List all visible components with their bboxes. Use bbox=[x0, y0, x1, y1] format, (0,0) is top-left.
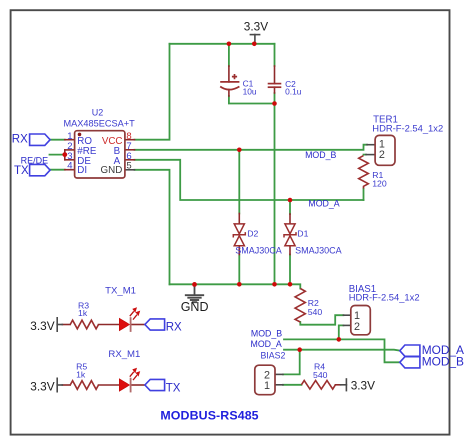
svg-text:TX_M1: TX_M1 bbox=[105, 286, 136, 297]
svg-text:540: 540 bbox=[313, 370, 328, 380]
svg-text:RX: RX bbox=[12, 133, 28, 145]
svg-text:120: 120 bbox=[372, 179, 387, 189]
svg-text:0.1u: 0.1u bbox=[285, 87, 302, 97]
svg-text:D1: D1 bbox=[297, 228, 308, 238]
svg-text:GND: GND bbox=[181, 300, 209, 314]
svg-text:TX: TX bbox=[166, 382, 181, 394]
svg-text:MOD_B: MOD_B bbox=[422, 354, 464, 368]
svg-text:HDR-F-2.54_1x2: HDR-F-2.54_1x2 bbox=[349, 292, 420, 303]
svg-text:SMAJ30CA: SMAJ30CA bbox=[295, 246, 342, 256]
svg-text:MAX485ECSA+T: MAX485ECSA+T bbox=[63, 119, 135, 129]
svg-text:2: 2 bbox=[379, 149, 385, 161]
svg-text:3.3V: 3.3V bbox=[30, 319, 54, 333]
svg-text:4: 4 bbox=[67, 161, 72, 172]
svg-text:1k: 1k bbox=[76, 369, 86, 379]
svg-text:SMAJ30CA: SMAJ30CA bbox=[235, 246, 282, 256]
svg-text:3.3V: 3.3V bbox=[30, 379, 54, 393]
svg-text:RX_M1: RX_M1 bbox=[108, 349, 140, 360]
svg-text:1k: 1k bbox=[78, 308, 88, 318]
svg-text:U2: U2 bbox=[92, 107, 104, 117]
svg-text:2: 2 bbox=[354, 321, 360, 333]
svg-text:3.3V: 3.3V bbox=[244, 19, 268, 33]
svg-text:MOD_B: MOD_B bbox=[305, 150, 336, 160]
svg-text:MODBUS-RS485: MODBUS-RS485 bbox=[160, 409, 258, 423]
svg-text:GND: GND bbox=[101, 165, 123, 176]
svg-text:DI: DI bbox=[77, 165, 87, 176]
svg-text:HDR-F-2.54_1x2: HDR-F-2.54_1x2 bbox=[372, 122, 443, 133]
svg-text:3.3V: 3.3V bbox=[351, 378, 375, 392]
svg-text:MOD_A: MOD_A bbox=[308, 199, 339, 209]
svg-text:BIAS2: BIAS2 bbox=[261, 350, 286, 360]
svg-text:TX: TX bbox=[14, 165, 29, 177]
svg-text:MOD_B: MOD_B bbox=[251, 328, 282, 338]
svg-text:5: 5 bbox=[126, 161, 131, 172]
svg-text:10u: 10u bbox=[243, 86, 257, 96]
svg-text:540: 540 bbox=[308, 307, 323, 317]
svg-text:RX: RX bbox=[166, 322, 182, 334]
svg-text:MOD_A: MOD_A bbox=[251, 339, 282, 349]
svg-text:1: 1 bbox=[264, 380, 270, 392]
svg-text:D2: D2 bbox=[247, 228, 258, 238]
svg-text:RE/DE: RE/DE bbox=[21, 155, 49, 165]
